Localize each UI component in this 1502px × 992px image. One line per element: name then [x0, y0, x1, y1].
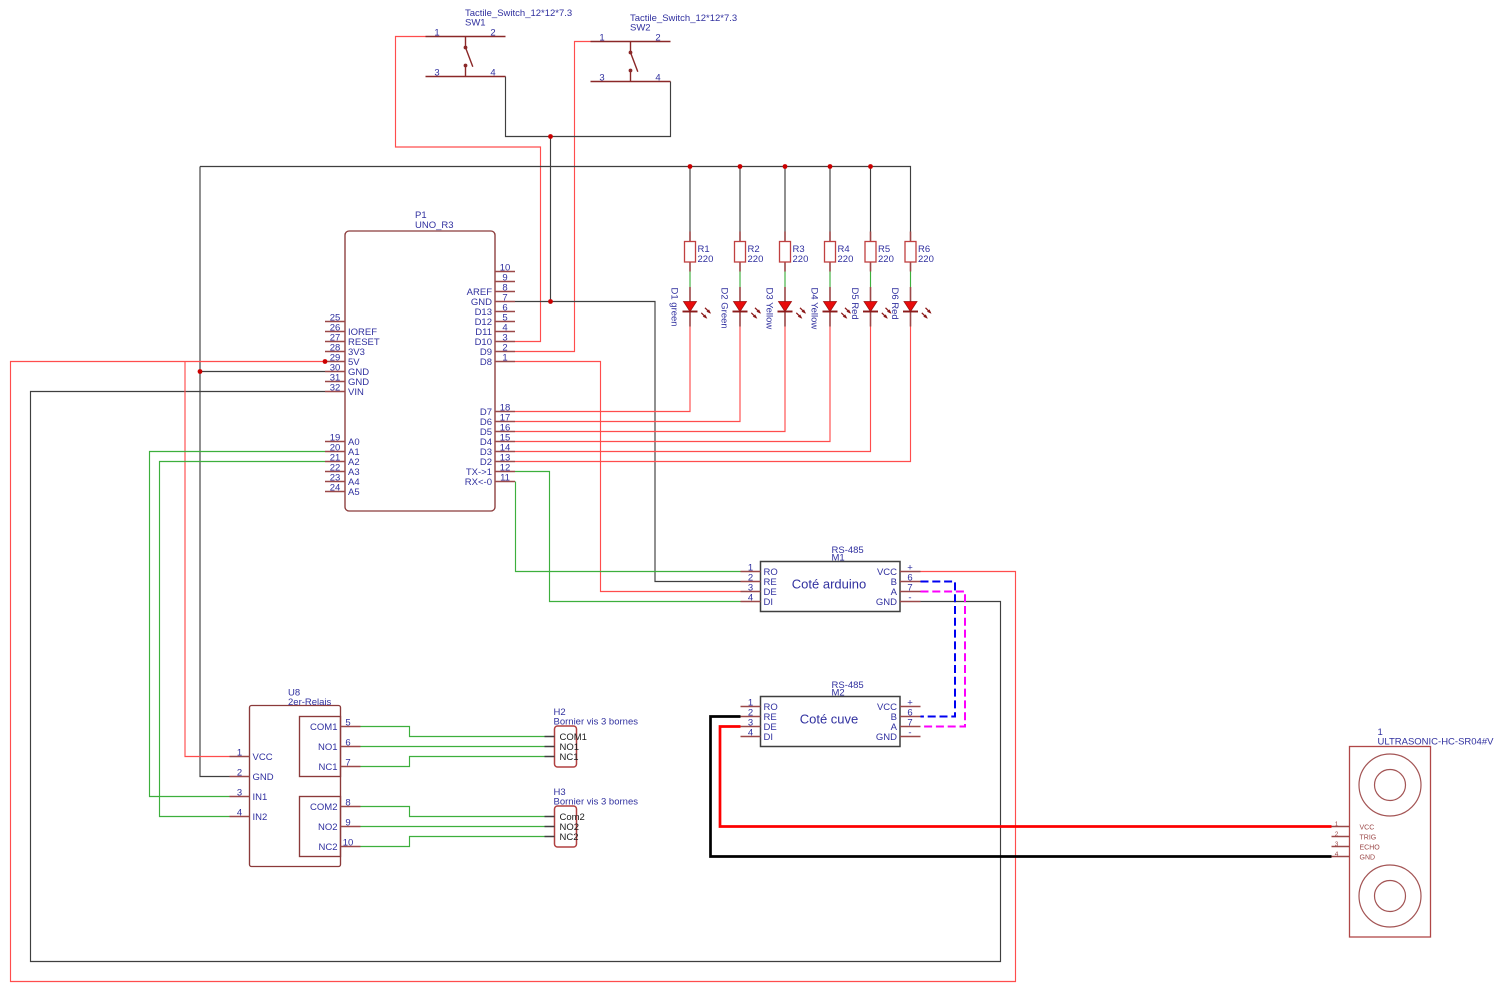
- svg-text:7: 7: [345, 757, 350, 768]
- svg-text:NC2: NC2: [560, 832, 579, 843]
- LED D1: [669, 287, 712, 327]
- svg-text:VIN: VIN: [348, 387, 364, 398]
- wire red net LED D3 to P1.D5: [515, 327, 785, 432]
- svg-text:4: 4: [748, 592, 753, 603]
- junction SW GND: [548, 134, 553, 139]
- wire black rail drop R4: [829, 167, 831, 232]
- svg-text:Bornier vis 3 bornes: Bornier vis 3 bornes: [554, 717, 639, 728]
- wire black rail drop R5: [870, 167, 872, 232]
- LED D6: [889, 287, 932, 327]
- junction GND30: [198, 369, 203, 374]
- wire green U8.NC1 to H2.NC1: [361, 757, 545, 767]
- svg-text:RX<-0: RX<-0: [465, 477, 492, 488]
- svg-text:8: 8: [345, 797, 350, 808]
- svg-text:Coté arduino: Coté arduino: [792, 577, 866, 592]
- svg-text:TRIG: TRIG: [1360, 835, 1377, 842]
- wire black P1.GND30 tee: [200, 371, 325, 373]
- terminal block H2: [545, 707, 639, 767]
- svg-text:220: 220: [793, 254, 809, 265]
- wire black rail drop R2: [739, 167, 741, 232]
- wire black rail drop R1: [689, 167, 691, 232]
- svg-text:4: 4: [748, 727, 753, 738]
- junction rail R2: [738, 164, 743, 169]
- svg-text:D3 Yellow: D3 Yellow: [764, 288, 775, 330]
- svg-text:220: 220: [918, 254, 934, 265]
- svg-text:3: 3: [434, 67, 439, 78]
- wire black rail drop R3: [784, 167, 786, 232]
- junction rail R3: [783, 164, 788, 169]
- svg-text:4: 4: [1335, 851, 1339, 858]
- svg-text:GND: GND: [253, 772, 274, 783]
- svg-text:NC2: NC2: [318, 842, 337, 853]
- svg-text:3: 3: [599, 72, 604, 83]
- svg-text:ECHO: ECHO: [1360, 845, 1381, 852]
- P1 left pin stubs 19..24: [325, 442, 345, 492]
- svg-text:2: 2: [655, 32, 660, 43]
- svg-text:D6 Red: D6 Red: [889, 288, 900, 320]
- relay module U8: [230, 688, 361, 867]
- resistor R4: [825, 232, 854, 272]
- svg-text:24: 24: [330, 482, 341, 493]
- M2 right pin stubs: [900, 707, 921, 737]
- wire red net LED D2 to P1.D6: [515, 327, 740, 422]
- M1 right pin stubs: [900, 572, 921, 602]
- H3 pin stubs: [545, 817, 555, 837]
- svg-text:IN2: IN2: [253, 812, 268, 823]
- wire red 5V branch to relay VCC: [185, 362, 230, 757]
- junction rail R4: [828, 164, 833, 169]
- resistor R1: [685, 232, 714, 272]
- svg-text:M1: M1: [832, 553, 845, 564]
- svg-text:1: 1: [434, 27, 439, 38]
- svg-text:NO2: NO2: [318, 822, 338, 833]
- wire red net LED D4 to P1.D4: [515, 327, 830, 442]
- U8 left pin stubs 1..4: [230, 757, 250, 817]
- M2 left pin stubs 1..4: [741, 707, 761, 737]
- resistor R6: [905, 232, 934, 272]
- svg-text:IN1: IN1: [253, 792, 268, 803]
- wire black GND vertical from switch junction to P1.GND7: [550, 137, 552, 302]
- svg-text:2er-Relais: 2er-Relais: [288, 697, 332, 708]
- wire red net P1.D8 to M1.DE: [515, 362, 741, 592]
- wire green R1 to D1: [689, 272, 691, 288]
- svg-text:ULTRASONIC-HC-SR04#V: ULTRASONIC-HC-SR04#V: [1378, 737, 1495, 748]
- wire magenta dashed M1.A to M2.A: [921, 592, 966, 727]
- svg-text:1: 1: [599, 32, 604, 43]
- svg-text:-: -: [908, 727, 911, 738]
- wire red net SW1.1 to P1.D10: [396, 37, 541, 342]
- wire green net P1.RX to M1.RO: [516, 482, 741, 572]
- wire red net LED D5 to P1.D3: [515, 327, 871, 452]
- svg-text:GND: GND: [1360, 855, 1376, 862]
- wire black net SW1.4 SW2.4 to GND junction: [506, 77, 671, 137]
- svg-text:D5 Red: D5 Red: [849, 288, 860, 320]
- svg-text:220: 220: [878, 254, 894, 265]
- LED D2: [719, 287, 762, 329]
- wire black vertical rail to relay GND: [200, 167, 230, 777]
- svg-text:NC1: NC1: [560, 752, 579, 763]
- svg-text:5: 5: [345, 717, 350, 728]
- svg-text:32: 32: [330, 382, 341, 393]
- svg-text:11: 11: [500, 472, 510, 483]
- LED D3: [764, 287, 807, 329]
- junction rail R1: [688, 164, 693, 169]
- wire green R6 to D6: [910, 272, 912, 288]
- svg-text:6: 6: [345, 737, 350, 748]
- wire green U8.NO2 to H3.NO2: [361, 826, 545, 828]
- wire red net LED D6 to P1.D2: [515, 327, 911, 462]
- wire green R3 to D3: [784, 272, 786, 288]
- svg-text:VCC: VCC: [1360, 825, 1375, 832]
- svg-text:NC1: NC1: [318, 762, 337, 773]
- svg-text:9: 9: [345, 817, 350, 828]
- svg-text:D4 Yellow: D4 Yellow: [809, 288, 820, 330]
- wire red net P1.5V loop to M1.VCC: [11, 362, 1016, 982]
- ultrasonic sensor HC-SR04: [1332, 727, 1495, 937]
- svg-text:COM2: COM2: [310, 802, 337, 813]
- svg-text:Coté cuve: Coté cuve: [800, 712, 859, 727]
- svg-text:UNO_R3: UNO_R3: [415, 220, 454, 231]
- svg-text:M2: M2: [832, 688, 845, 699]
- P1 left pin stubs 25..32: [325, 322, 345, 392]
- svg-text:220: 220: [748, 254, 764, 265]
- wire green U8.NC2 to H3.NC2: [361, 837, 545, 847]
- wire green U8.NO1 to H2.NO1: [361, 746, 545, 748]
- M1 left pin stubs 1..4: [741, 572, 761, 602]
- wire red net SW2.1 to P1.D9: [515, 42, 591, 352]
- Arduino UNO P1: [325, 210, 515, 511]
- wire green net P1.TX to M1.DI: [515, 472, 741, 602]
- wire green R5 to D5: [870, 272, 872, 288]
- wire green net P1.A1 to U8.IN1: [150, 452, 326, 797]
- H2 pin stubs: [545, 737, 555, 757]
- wire green R2 to D2: [739, 272, 741, 288]
- wire black LED top rail: [200, 167, 911, 232]
- wire black net P1.VIN loop to M1.GND: [31, 392, 1001, 962]
- svg-text:10: 10: [343, 837, 354, 848]
- svg-text:D2 Green: D2 Green: [719, 288, 730, 329]
- svg-text:2: 2: [237, 767, 242, 778]
- U8 right pin stubs 5..10: [341, 727, 361, 847]
- svg-text:1: 1: [1335, 821, 1339, 828]
- svg-text:GND: GND: [876, 597, 897, 608]
- switch SW2: [591, 13, 738, 83]
- svg-text:4: 4: [490, 67, 495, 78]
- svg-text:SW1: SW1: [465, 18, 486, 29]
- svg-text:D1 green: D1 green: [669, 288, 680, 327]
- svg-text:3: 3: [1335, 841, 1339, 848]
- svg-text:A5: A5: [348, 487, 360, 498]
- resistor R5: [865, 232, 894, 272]
- wire thick black M2.RE to ultrasonic GND: [711, 717, 1332, 857]
- ultrasonic pin stubs 1..4: [1332, 827, 1350, 857]
- wire red net LED D1 to P1.D7: [515, 327, 690, 412]
- wire green net P1.A2 to U8.IN2: [160, 462, 326, 817]
- junction P1.5V: [323, 359, 328, 364]
- RS-485 module M2: [741, 680, 921, 747]
- svg-text:NO1: NO1: [318, 742, 338, 753]
- resistor R2: [735, 232, 764, 272]
- wire black net P1.GND7 to M1.RE: [515, 302, 741, 582]
- svg-text:3: 3: [237, 787, 242, 798]
- svg-text:-: -: [908, 592, 911, 603]
- P1 right pin stubs 10..1: [495, 272, 515, 362]
- wire blue dashed M1.B to M2.B: [921, 582, 956, 717]
- svg-text:D8: D8: [480, 357, 492, 368]
- svg-text:COM1: COM1: [310, 722, 337, 733]
- svg-text:SW2: SW2: [630, 23, 651, 34]
- LED D4: [809, 287, 852, 329]
- svg-text:1: 1: [237, 747, 242, 758]
- wire thick red M2.DE to ultrasonic VCC: [720, 727, 1332, 827]
- junction P1.GND7: [548, 299, 553, 304]
- svg-text:2: 2: [490, 27, 495, 38]
- svg-text:VCC: VCC: [253, 752, 273, 763]
- svg-text:DI: DI: [764, 732, 774, 743]
- svg-text:220: 220: [698, 254, 714, 265]
- svg-text:220: 220: [838, 254, 854, 265]
- svg-text:GND: GND: [876, 732, 897, 743]
- wire green U8.COM2 to H3.Com2: [361, 807, 545, 817]
- junction rail R5: [868, 164, 873, 169]
- svg-text:4: 4: [237, 807, 242, 818]
- P1 right pin stubs 18..11: [495, 412, 515, 482]
- svg-text:1: 1: [502, 352, 507, 363]
- terminal block H3: [545, 787, 639, 847]
- svg-text:2: 2: [1335, 831, 1339, 838]
- wire green U8.COM1 to H2.COM1: [361, 727, 545, 737]
- switch SW1: [426, 8, 573, 78]
- wire green R4 to D4: [829, 272, 831, 288]
- resistor R3: [780, 232, 809, 272]
- svg-text:DI: DI: [764, 597, 774, 608]
- svg-text:4: 4: [655, 72, 660, 83]
- LED D5: [849, 287, 892, 327]
- svg-text:Bornier vis 3 bornes: Bornier vis 3 bornes: [554, 797, 639, 808]
- RS-485 module M1: [741, 545, 921, 612]
